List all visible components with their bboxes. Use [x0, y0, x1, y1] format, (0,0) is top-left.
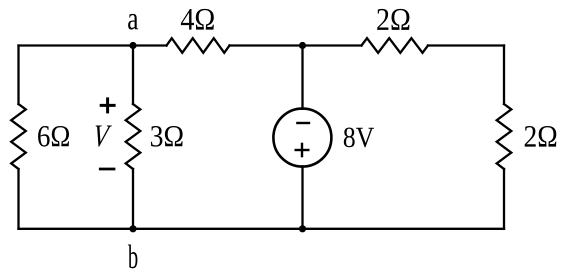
wire top-right segment (2-ohm to right corner): [428, 44, 504, 46]
label 2-ohm top: [377, 9, 409, 30]
label 8V: [344, 128, 374, 148]
label 2-ohm right: [525, 126, 557, 147]
wire left edge top stub: [17, 46, 19, 105]
wire middle node to source top: [301, 46, 303, 109]
wire right edge bottom stub: [503, 169, 505, 229]
resistor 4-ohm body: [167, 38, 230, 53]
wire top-left segment (left corner to 4-ohm resistor, through node a): [19, 44, 167, 46]
label 6-ohm: [38, 126, 69, 147]
resistor 6-ohm body: [11, 104, 26, 169]
junction dot node b: [129, 225, 136, 232]
wire bottom rail (b node rail, full width): [19, 228, 505, 230]
polarity minus sign of V: [99, 168, 116, 171]
voltage source 8V circle: [273, 109, 331, 167]
junction dot node a: [129, 42, 136, 49]
label V (branch voltage, italic): [96, 126, 112, 147]
resistor 2-ohm right body: [497, 104, 512, 169]
wire top-middle segment (4-ohm to 2-ohm, through middle node): [230, 44, 362, 46]
wire left edge bottom stub: [17, 169, 19, 229]
junction dot bottom middle node: [299, 225, 306, 232]
label node a: [128, 14, 138, 30]
label node b: [128, 245, 137, 269]
junction dot top middle node: [299, 42, 306, 49]
wire right edge top stub: [503, 46, 505, 105]
wire source bottom to bottom rail: [301, 166, 303, 228]
wire 3-ohm resistor to node b: [132, 169, 134, 229]
label 3-ohm: [151, 126, 183, 147]
source plus sign: [295, 143, 310, 158]
wire node a to 3-ohm resistor: [132, 46, 134, 105]
source minus sign: [296, 122, 310, 124]
resistor 2-ohm top body: [362, 38, 429, 53]
polarity plus sign of V: [100, 97, 116, 113]
label 4-ohm: [181, 9, 214, 30]
resistor 3-ohm body: [126, 104, 141, 169]
